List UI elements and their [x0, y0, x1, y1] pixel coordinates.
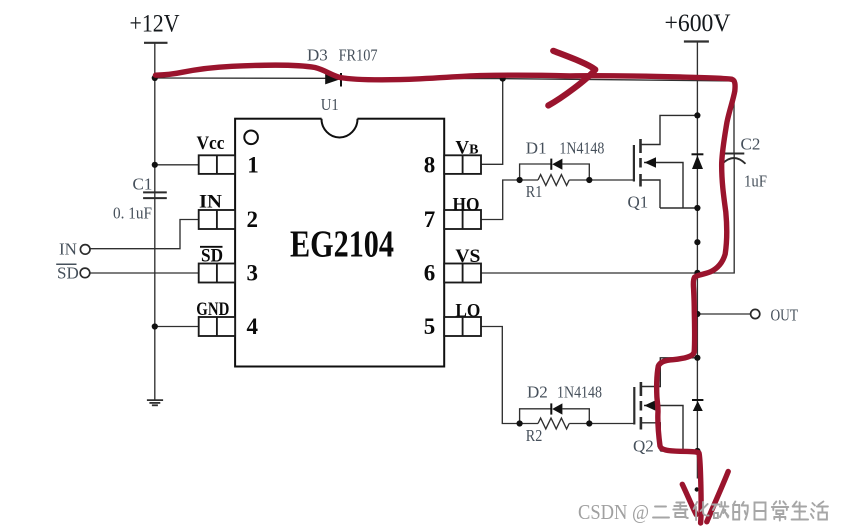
- node: Q1 drain on rail: [694, 112, 700, 118]
- wire: HO to R1 left node: [481, 180, 520, 220]
- node: Vcc: [152, 162, 158, 168]
- red annotation: chevron arrow on top rail: [548, 51, 595, 106]
- wire: SD terminal to pin3: [89, 272, 199, 274]
- terminal SD: [80, 268, 90, 278]
- svg-text:8: 8: [424, 152, 436, 177]
- capacitor C2: [723, 153, 744, 155]
- svg-text:IN: IN: [199, 192, 222, 213]
- svg-text:VS: VS: [455, 246, 480, 267]
- svg-text:7: 7: [424, 207, 436, 232]
- node: rail end stub: [695, 487, 699, 491]
- wire: OUT: [697, 313, 750, 315]
- capacitor C1: [143, 192, 167, 198]
- svg-text:Q2: Q2: [633, 437, 654, 456]
- pin 6 box (VS): [444, 264, 481, 283]
- terminal IN: [80, 245, 90, 255]
- wire: R1 right node to Q1 gate: [589, 179, 634, 181]
- svg-text:FR107: FR107: [339, 46, 378, 65]
- pin 7 box (HO): [444, 210, 481, 229]
- node: VS on rail: [694, 270, 700, 276]
- node: R1 left: [517, 177, 523, 183]
- pin boxes left: [199, 155, 481, 336]
- svg-text:6: 6: [424, 261, 436, 286]
- pin 2 box (IN): [199, 210, 235, 229]
- red annotation: main highlighted path: [156, 51, 736, 523]
- terminal OUT: [751, 309, 760, 318]
- svg-text:5: 5: [424, 314, 436, 339]
- pin 8 box (VB): [444, 155, 481, 174]
- svg-text:+12V: +12V: [130, 11, 180, 38]
- svg-text:+600V: +600V: [665, 10, 731, 37]
- transistor Q1: [634, 115, 698, 208]
- svg-text:IN: IN: [59, 240, 77, 259]
- node: Q1 source on rail: [694, 205, 700, 211]
- svg-text:U1: U1: [321, 95, 339, 114]
- svg-text:SD: SD: [201, 246, 223, 267]
- wire: LO to R2 left node: [481, 327, 520, 424]
- svg-text:R1: R1: [526, 182, 543, 201]
- body diode of Q1: [692, 154, 704, 169]
- node: R1 right: [586, 177, 592, 183]
- diode D1 + resistor R1: [520, 164, 590, 185]
- body diode of Q2: [692, 400, 703, 411]
- svg-text:R2: R2: [526, 426, 543, 445]
- wire: C2 top lead: [733, 81, 735, 153]
- red annotation: bottom arrowhead left stroke: [682, 484, 696, 514]
- svg-text:EG2104: EG2104: [290, 224, 394, 266]
- diode D2 + resistor R2: [520, 409, 590, 429]
- SD terminal overline: [56, 263, 76, 265]
- pin 4 box (GND): [199, 317, 235, 336]
- svg-text:4: 4: [247, 314, 259, 339]
- node: Q2 source on rail: [694, 448, 700, 454]
- wire: main top rail from +12V to C2 corner: [155, 78, 734, 81]
- node: VB tap on top rail: [500, 76, 506, 82]
- node: OUT on rail: [694, 311, 700, 317]
- svg-text:1N4148: 1N4148: [559, 139, 604, 158]
- SD overline: [200, 246, 223, 248]
- svg-text:0. 1uF: 0. 1uF: [113, 204, 152, 223]
- wire: +12V rail upper: [154, 42, 156, 400]
- wire: +600V rail: [696, 42, 698, 479]
- svg-text:C1: C1: [133, 174, 153, 193]
- svg-text:D1: D1: [526, 139, 547, 158]
- svg-text:HO: HO: [453, 195, 480, 216]
- svg-text:CSDN @: CSDN @: [578, 500, 649, 524]
- transistor Q2: [634, 358, 697, 451]
- svg-text:D2: D2: [527, 382, 548, 401]
- wire: Vcc to rail: [155, 164, 199, 166]
- node: Q2 drain on rail: [694, 355, 700, 361]
- svg-text:SD: SD: [57, 264, 79, 283]
- svg-text:1uF: 1uF: [744, 172, 767, 191]
- svg-text:2: 2: [247, 207, 259, 232]
- svg-text:OUT: OUT: [771, 306, 799, 325]
- +12V supply bar: [144, 42, 168, 44]
- wire: R2 right node to Q2 gate: [589, 423, 634, 425]
- wire: IN terminal to pin2: [89, 220, 199, 249]
- node: R2 left: [517, 420, 523, 426]
- wire: VB to top rail: [481, 79, 503, 165]
- svg-text:1N4148: 1N4148: [557, 382, 602, 401]
- svg-text:Q1: Q1: [628, 193, 649, 212]
- node: R2 right: [586, 420, 592, 426]
- svg-text:1: 1: [247, 152, 258, 177]
- node: +12V / top rail: [152, 75, 158, 81]
- red annotation: bottom arrowhead right stroke: [707, 472, 728, 522]
- svg-text:D3: D3: [307, 46, 328, 65]
- pin 3 box (SD): [199, 264, 235, 283]
- node: rail mid: [694, 239, 700, 245]
- svg-text:LO: LO: [455, 301, 480, 322]
- wire: VS to C2 bottom: [481, 154, 734, 273]
- svg-text:C2: C2: [741, 135, 761, 154]
- diode D3: [325, 73, 341, 87]
- +600V supply bar: [684, 40, 709, 42]
- IC U1 body: [235, 95, 444, 367]
- watermark CSDN: [578, 500, 828, 524]
- node: GND: [152, 323, 158, 329]
- svg-text:GND: GND: [196, 299, 229, 320]
- pin 1 box (Vcc): [199, 155, 235, 174]
- wire: GND to rail: [155, 326, 199, 328]
- ground: [147, 400, 163, 405]
- pin 5 box (LO): [444, 317, 481, 336]
- svg-text:3: 3: [247, 261, 259, 286]
- svg-text:Vcc: Vcc: [197, 133, 225, 154]
